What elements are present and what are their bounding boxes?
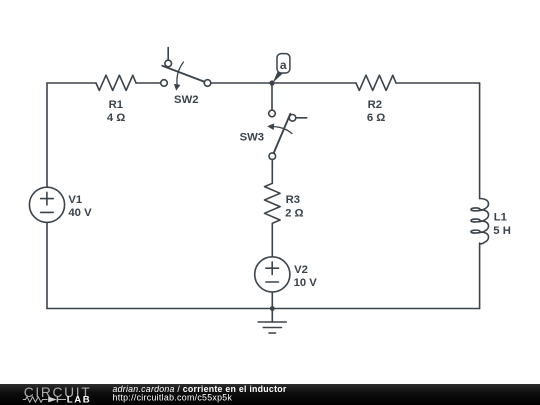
wire R3 to V2	[271, 223, 273, 256]
node a junction dot	[269, 80, 274, 85]
svg-text:5 H: 5 H	[493, 225, 511, 237]
V1 body circle	[29, 187, 64, 222]
SW3 lever	[274, 114, 291, 153]
svg-text:2 Ω: 2 Ω	[285, 207, 303, 219]
svg-text:http://circuitlab.com/c55xp5k: http://circuitlab.com/c55xp5k	[113, 393, 233, 403]
svg-text:40 V: 40 V	[68, 207, 92, 219]
resistor R2	[356, 75, 396, 90]
resistor R3	[265, 183, 281, 223]
SW3 top throw terminal	[269, 110, 276, 117]
svg-text:4 Ω: 4 Ω	[107, 112, 125, 124]
switch SW3	[267, 110, 307, 159]
V2 plus sign	[266, 262, 279, 275]
SW2 top throw stub wire	[167, 48, 169, 61]
svg-text:R1: R1	[109, 99, 123, 111]
SW3 actuation arrow	[274, 127, 292, 134]
SW2 top throw terminal	[165, 60, 172, 67]
wire R2 to top-right corner	[396, 82, 480, 84]
SW3 pole terminal	[269, 153, 276, 160]
wire junction a to R2	[272, 82, 356, 84]
ground bar 1	[258, 321, 286, 323]
footer bar	[0, 384, 540, 405]
voltage source V1	[29, 187, 64, 222]
ground	[258, 309, 286, 334]
svg-text:V1: V1	[68, 194, 82, 206]
wire SW2 pole to junction a	[211, 82, 272, 84]
wire R1 to SW2 left throw	[136, 82, 161, 84]
svg-text:10 V: 10 V	[294, 277, 318, 289]
voltage source V2	[255, 257, 290, 292]
svg-text:R2: R2	[368, 99, 382, 111]
svg-text:SW3: SW3	[240, 131, 264, 143]
V2 minus sign	[266, 281, 279, 283]
wire L1 to bottom-right corner	[479, 243, 481, 308]
wire junction a down to SW3 top throw	[271, 86, 273, 111]
switch SW2	[161, 48, 211, 91]
wire top rail left segment to R1	[47, 82, 96, 84]
wire right edge down to L1	[479, 83, 481, 199]
ground stem	[271, 309, 273, 323]
SW3 right throw stub wire	[296, 117, 307, 119]
ground bar 2	[263, 327, 281, 329]
ground junction dot	[270, 306, 275, 311]
resistor R1	[96, 75, 136, 90]
svg-text:LAB: LAB	[67, 395, 92, 405]
logo resistor-diode squiggle	[23, 397, 66, 403]
V1 minus sign	[41, 211, 54, 213]
node a flag pointer	[273, 70, 283, 83]
ground bar 3	[269, 332, 276, 334]
svg-text:L1: L1	[494, 211, 507, 223]
svg-text:V2: V2	[294, 264, 308, 276]
inductor L1	[471, 199, 489, 244]
wire bottom rail	[47, 308, 480, 310]
SW2 pole terminal	[204, 80, 211, 87]
svg-text:a: a	[280, 58, 287, 72]
node a flag box	[277, 54, 290, 73]
wire left edge bottom up to V1	[46, 222, 48, 308]
V1 plus sign	[41, 192, 54, 205]
SW2 actuation arrow	[177, 62, 184, 86]
wire top-left: left edge vertical from V1 up to top rail	[46, 83, 48, 187]
V2 body circle	[255, 257, 290, 292]
svg-text:6 Ω: 6 Ω	[367, 112, 385, 124]
SW3 right throw terminal	[289, 115, 296, 122]
SW2 lever	[162, 66, 204, 82]
SW2 left throw terminal	[161, 80, 168, 87]
wire SW3 pole down to R3	[271, 160, 273, 184]
svg-text:R3: R3	[286, 194, 300, 206]
wire V2 to ground junction	[271, 292, 273, 309]
node a flag	[273, 54, 290, 83]
svg-text:SW2: SW2	[174, 94, 198, 106]
